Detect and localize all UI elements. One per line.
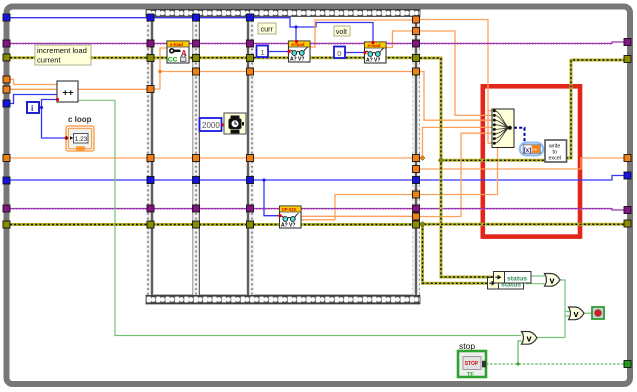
tunnel purple right loop [624, 39, 631, 46]
tunnel orange seq right 169 [413, 166, 420, 173]
wire orange left tunnel b to ++ [10, 88, 57, 90]
tunnel blue divider2 top [193, 14, 200, 21]
tunnel blue b left loop [3, 100, 10, 107]
loop condition terminal [592, 307, 604, 319]
junction diamond orange 158 [420, 156, 425, 161]
svg-text:1: 1 [261, 48, 265, 57]
function build array [492, 109, 514, 148]
svg-text:CC: CC [168, 57, 178, 64]
wire blue long mid [10, 176, 624, 181]
wire green unbundle B to or1 [526, 283, 545, 285]
wire orange tunnel169 to right loop tunnel [420, 158, 624, 169]
tunnel purple left loop [3, 40, 10, 47]
tunnel purple divider3 bottom [247, 205, 254, 212]
svg-text:curr: curr [261, 25, 274, 34]
svg-text:stop: stop [459, 341, 475, 351]
tunnel blue right loop [624, 172, 631, 179]
junction dot green stop wire [517, 363, 520, 366]
svg-text:excel: excel [549, 156, 562, 162]
unbundle by name status A [494, 272, 532, 284]
tunnel olive divider3 [247, 55, 254, 62]
junction diamond olive error mid [438, 158, 444, 164]
wire blue const 1 to VI1 [268, 51, 290, 53]
tunnel olive seq left [147, 55, 154, 62]
subVI write to excel [545, 140, 567, 162]
wire error bottom right to loop tunnel [420, 223, 624, 226]
wire error write to excel out to loop tunnel [566, 60, 624, 158]
red highlight rectangle annotation [483, 86, 580, 236]
label volt [334, 26, 350, 36]
tunnel blue divider2 mid [193, 177, 200, 184]
tunnel blue seq left mid [147, 177, 154, 184]
wire blue const 0 to VI2 [345, 52, 366, 54]
junction dot blue iteration [40, 106, 43, 109]
wire orange tunnel158 up to build array in4 [420, 127, 492, 158]
svg-text:OP-03X: OP-03X [282, 207, 297, 212]
tunnel olive seq right bottom [413, 221, 420, 228]
tunnel green right loop [624, 361, 631, 368]
wire orange long mid left [10, 157, 412, 159]
tunnel orange divider3 mid [247, 155, 254, 162]
svg-text:v: v [527, 334, 532, 344]
tunnel orange seq right 31 [413, 28, 420, 35]
wire orange ++ output to frame 1 [78, 88, 147, 90]
tunnel olive mid left loop [3, 221, 10, 228]
wire orange tunnel71 to build array in3 [420, 72, 492, 121]
wire error long bottom left [10, 223, 412, 226]
sequence frame divider 2 [193, 17, 201, 296]
tunnel blue seq left top [147, 14, 154, 21]
tunnel olive divider2 [193, 55, 200, 62]
or gate 1 [545, 273, 561, 286]
junction dot blue top [294, 25, 297, 28]
tunnel blue mid left loop [3, 177, 10, 184]
svg-text:e-load: e-load [292, 42, 305, 47]
svg-text:0: 0 [337, 49, 341, 58]
wire orange tunnel19 to build array in1 [420, 20, 492, 144]
constant 2000 [200, 118, 225, 131]
wire blue to VI2 top input [296, 23, 373, 42]
tunnel olive left loop [3, 54, 10, 61]
wire orange converter to write to excel [543, 148, 546, 150]
wire green stop branch to or2 [518, 341, 522, 364]
wire orange tunnel216 up to build array in5 [420, 133, 492, 216]
wire orange frame1 up to e-load VI [154, 48, 167, 89]
tunnel olive right loop bottom [624, 220, 631, 227]
subVI e-load query volt VI2 [363, 41, 386, 64]
tunnel purple seq right bottom [413, 205, 420, 212]
tunnel orange divider2 mid [193, 155, 200, 162]
label increment load current [35, 45, 91, 65]
tunnel orange a left loop [3, 76, 10, 83]
tunnel olive right loop [624, 56, 631, 63]
svg-text:v: v [574, 309, 579, 319]
label curr [258, 23, 276, 34]
tunnel orange mid left loop [3, 155, 10, 162]
node ++ increment [56, 81, 78, 102]
svg-text:TF: TF [467, 372, 474, 378]
tunnel orange seq right 19 [413, 16, 420, 23]
wire error branch to write to excel [441, 159, 546, 162]
wire green or2 output [537, 337, 565, 339]
tunnel orange seq right 216 [413, 213, 420, 220]
sequence structure bottom border [146, 295, 420, 304]
tunnel purple divider2 [193, 40, 200, 47]
unbundle by name status B [488, 278, 524, 290]
constant 0 [334, 47, 345, 59]
wire purple visa top [10, 42, 624, 44]
svg-text:[x]: [x] [524, 148, 531, 154]
tunnel orange seq right 71 [413, 68, 420, 75]
sequence frame divider 3 [247, 17, 255, 296]
wire blue 2000 to wait [222, 124, 225, 126]
wire purple visa bottom [10, 209, 624, 211]
svg-text:++: ++ [63, 88, 75, 99]
svg-text:2000: 2000 [202, 121, 220, 130]
wire green or1 output down [560, 280, 570, 338]
tunnel blue divider3 top [247, 14, 254, 21]
or gate 2 [522, 331, 538, 344]
or gate 3 [569, 307, 585, 320]
wire blue scan line top [10, 18, 296, 27]
svg-text:status: status [507, 276, 527, 283]
tunnel purple right loop bottom [624, 207, 631, 214]
sequence structure top border [146, 10, 420, 17]
tunnel olive seq left bottom [147, 221, 154, 228]
tunnel orange seq left mid [147, 155, 154, 162]
wire blue iteration terminal branch [39, 100, 65, 139]
sequence structure right border [413, 17, 421, 296]
function array to int converter [520, 143, 543, 156]
svg-text:volt: volt [336, 27, 347, 36]
junction diamond olive bottom [420, 222, 426, 228]
tunnel purple seq left [147, 40, 154, 47]
svg-text:A? V?: A? V? [281, 223, 295, 229]
tunnel blue divider3 mid [247, 177, 254, 184]
subVI e-load configure U1 [167, 41, 189, 64]
constant 1 [257, 46, 269, 58]
tunnel purple seq left bottom [147, 205, 154, 212]
subVI e-load query current VI1 [287, 40, 310, 63]
subVI OP query bottom [278, 206, 301, 229]
svg-text:current: current [37, 56, 62, 65]
tunnel blue left loop [3, 14, 10, 21]
wire green ++ to or gate 2 [78, 100, 521, 335]
wire green unbundle A to or1 [532, 275, 545, 277]
svg-text:increment load: increment load [37, 46, 87, 55]
wire orange tunnel194 up into highlight [420, 148, 498, 195]
tunnel orange seq right 158 [413, 155, 420, 162]
svg-text:v: v [550, 276, 555, 286]
tunnel olive divider2 bottom [193, 221, 200, 228]
junction dot blue mid [262, 178, 265, 181]
wire green stop control to loop tunnel [486, 363, 624, 365]
tunnel olive divider3 bottom [247, 221, 254, 228]
svg-text:1.23: 1.23 [75, 136, 88, 143]
junction dot orange daisy [158, 70, 161, 73]
wire orange tunnel31 to build array in2 [420, 31, 492, 115]
svg-text:A? V?: A? V? [290, 57, 304, 63]
tunnel blue seq right [413, 177, 420, 184]
tunnel orange seq left [147, 86, 154, 93]
svg-text:A? V?: A? V? [366, 58, 380, 64]
wire orange daisy chain across frames [160, 71, 412, 73]
wire orange left tunnel a to ++ [10, 79, 57, 84]
svg-text:e-load: e-load [170, 42, 183, 47]
wire orange OP VI output 2 [300, 195, 412, 220]
wire error cluster down to unbundle A [420, 58, 494, 277]
tunnel purple divider2 bottom [193, 205, 200, 212]
svg-text:e-load: e-load [368, 43, 381, 48]
sequence structure left border [147, 17, 155, 296]
tunnel purple seq right [413, 40, 420, 47]
tunnel orange divider2 [193, 68, 200, 75]
tunnel orange seq right 194 [413, 191, 420, 198]
wire error cluster top left [10, 56, 412, 59]
wire orange OP VI output 1 [300, 215, 412, 217]
tunnel purple divider3 [247, 40, 254, 47]
wire array dark blue dashed build array to converter [514, 128, 525, 142]
iteration terminal i [27, 102, 39, 113]
tunnel olive seq right [413, 55, 420, 62]
control stop button [458, 341, 486, 378]
function wait ms [224, 113, 246, 134]
tunnel orange right loop [624, 155, 631, 162]
indicator c loop [64, 115, 94, 151]
tunnel orange b left loop [3, 86, 10, 93]
svg-text:c loop: c loop [68, 115, 92, 124]
wire green or3 output to stop terminal [583, 312, 592, 314]
wire error branch to unbundle B [423, 224, 489, 283]
tunnel purple mid left loop [3, 205, 10, 212]
wire blue left tunnel to ++ node [10, 95, 57, 104]
svg-text:STOP: STOP [465, 361, 479, 367]
wire orange VI2 output up to tunnel [386, 31, 412, 48]
tunnel orange divider3 [247, 68, 254, 75]
wire orange VI1 output up to tunnel [310, 20, 412, 47]
wire blue branch to OP VI [264, 180, 281, 216]
svg-text:i: i [31, 103, 33, 113]
wire blue to VI1 top input [295, 27, 297, 40]
